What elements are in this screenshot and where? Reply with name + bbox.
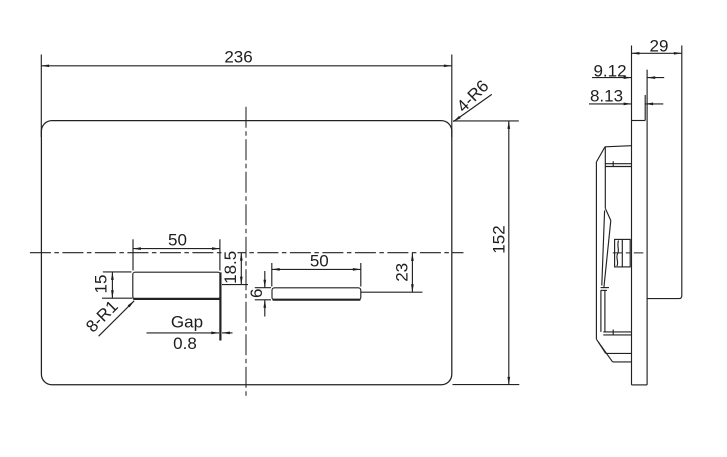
gap dim right arrow [222,332,233,334]
dim 50 (left) line [133,248,220,250]
dim 18.5 extension line [222,284,248,286]
lower strip verticals [600,290,602,332]
lower inner horizontal [606,352,632,354]
dim 6 extension lines [255,287,271,289]
side: 8.13 step line [644,95,646,121]
upper block left edge [604,147,606,167]
detent break squiggle [617,241,619,267]
svg-text:50: 50 [310,251,329,270]
rod kink [605,208,611,220]
housing bottom chamfer [596,339,612,362]
vertical centerline [245,107,247,396]
rod wedge right line [604,221,611,288]
dim 15 line [111,272,113,298]
svg-text:50: 50 [168,230,187,249]
wedge bottom ticks [601,287,609,289]
rod upper vertical [604,167,606,209]
dim 50 (right button) extension lines [271,263,273,287]
dim 23 extension line [361,291,422,293]
housing top edge [605,146,632,147]
svg-text:23: 23 [393,263,412,282]
dim 152 extension lines [453,120,519,122]
gap dim line left part [147,332,220,334]
dim 8.13 lines [589,103,632,105]
housing top chamfer [596,147,605,162]
side: panel back edge line [646,70,648,385]
svg-text:152: 152 [490,225,509,253]
housing bottom edge [613,361,632,363]
button detent rectangle [615,239,631,267]
dim 236 line [41,65,452,67]
svg-text:Gap: Gap [171,313,203,332]
lower inner chamfer [598,342,606,354]
4-R6 leader [453,94,491,121]
text 18.5 (with white backing) [223,251,238,285]
upper block tick [612,161,614,166]
side: wall-side long line with bottom corner [647,46,682,299]
plate outline (front view) [41,121,451,385]
lower block tick [612,330,614,335]
dim 29 line [632,52,682,54]
upper block double horizontals [605,163,631,165]
svg-text:8.13: 8.13 [590,87,623,106]
lower block double horizontals [603,331,631,333]
svg-text:6: 6 [247,289,266,298]
dim 9.12 lines [592,77,632,79]
svg-text:0.8: 0.8 [173,334,197,353]
side view centerline [613,252,647,254]
dim 18.5 line [240,253,242,285]
housing left vertical [595,162,597,339]
dim 6 arrow lines (outside) [264,271,266,288]
left button thick bottom edge [133,298,221,300]
detent inner vertical [621,239,623,267]
right button thick bottom edge [273,299,361,301]
right button [272,288,361,300]
left button thick right edge / gap line [219,272,221,340]
rod wedge left line [602,211,605,286]
dim 15 extension lines [103,271,132,273]
left button [133,272,220,299]
8-R1 leader [99,301,135,336]
svg-text:236: 236 [224,48,252,67]
svg-text:29: 29 [650,36,669,55]
svg-text:15: 15 [92,275,111,294]
dim 23 line [411,253,413,292]
side: panel top edge [632,120,646,122]
horizontal centerline [30,252,464,254]
side: panel bottom edge [632,384,648,386]
side: plate front face long line [631,46,633,385]
dim 236 extension lines [40,55,42,138]
dim 50 (right) line [272,268,361,270]
svg-text:9.12: 9.12 [593,62,626,81]
dim 50 (left button) extension lines [132,239,134,270]
dim 152 line [508,121,510,385]
svg-text:18.5: 18.5 [221,251,240,284]
